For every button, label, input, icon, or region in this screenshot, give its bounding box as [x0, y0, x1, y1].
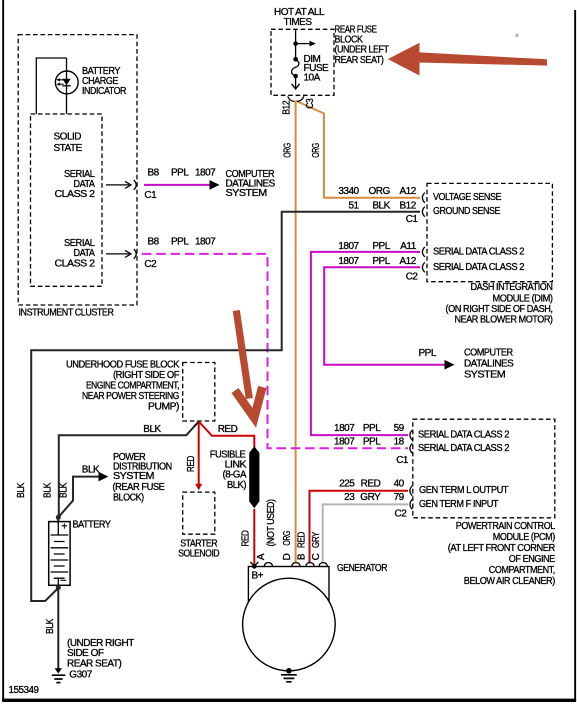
- svg-text:ENGINE COMPARTMENT,: ENGINE COMPARTMENT,: [86, 381, 179, 392]
- svg-text:STATE: STATE: [54, 143, 83, 154]
- svg-text:C2: C2: [406, 272, 419, 283]
- svg-text:RED: RED: [240, 530, 251, 546]
- svg-text:GROUND SENSE: GROUND SENSE: [433, 206, 501, 217]
- svg-text:C2: C2: [144, 259, 157, 270]
- svg-text:MODULE (DIM): MODULE (DIM): [493, 293, 553, 304]
- svg-text:ORG: ORG: [283, 143, 294, 158]
- svg-text:1807: 1807: [334, 437, 355, 448]
- svg-text:COMPARTMENT,: COMPARTMENT,: [489, 565, 555, 576]
- svg-text:PPL: PPL: [372, 241, 390, 252]
- svg-text:1807: 1807: [195, 237, 216, 248]
- svg-text:INDICATOR: INDICATOR: [82, 86, 126, 97]
- svg-text:BLK: BLK: [43, 482, 54, 498]
- svg-text:SERIAL DATA CLASS 2: SERIAL DATA CLASS 2: [433, 262, 525, 273]
- svg-text:1807: 1807: [334, 423, 355, 434]
- svg-text:RED: RED: [186, 456, 197, 472]
- svg-text:COMPUTER: COMPUTER: [464, 347, 513, 358]
- svg-text:BLOCK): BLOCK): [113, 493, 144, 504]
- svg-text:VOLTAGE SENSE: VOLTAGE SENSE: [433, 192, 502, 203]
- svg-text:CLASS 2: CLASS 2: [55, 258, 96, 269]
- svg-text:PPL: PPL: [171, 167, 189, 178]
- svg-text:(RIGHT SIDE OF: (RIGHT SIDE OF: [113, 370, 179, 381]
- svg-text:ORG: ORG: [369, 186, 391, 197]
- svg-text:GEN TERM L OUTPUT: GEN TERM L OUTPUT: [419, 485, 508, 496]
- svg-text:G307: G307: [69, 670, 92, 681]
- svg-text:BLK: BLK: [82, 465, 100, 476]
- svg-text:CLASS 2: CLASS 2: [55, 189, 96, 200]
- svg-text:BLK): BLK): [227, 480, 246, 491]
- svg-text:GRY: GRY: [360, 492, 381, 503]
- svg-text:GRY: GRY: [311, 531, 322, 548]
- svg-text:B: B: [297, 553, 308, 560]
- svg-text:D: D: [282, 553, 293, 560]
- svg-text:79: 79: [394, 492, 405, 503]
- svg-text:(NOT USED): (NOT USED): [266, 499, 277, 546]
- svg-text:ORG: ORG: [282, 531, 293, 546]
- svg-text:10A: 10A: [304, 73, 321, 84]
- svg-text:1807: 1807: [338, 241, 359, 252]
- svg-text:GEN TERM F INPUT: GEN TERM F INPUT: [419, 499, 498, 510]
- svg-text:A12: A12: [400, 186, 417, 197]
- svg-text:BELOW AIR CLEANER): BELOW AIR CLEANER): [464, 576, 555, 587]
- svg-text:PPL: PPL: [363, 437, 381, 448]
- svg-text:NEAR BLOWER MOTOR): NEAR BLOWER MOTOR): [455, 315, 553, 326]
- svg-text:C1: C1: [396, 455, 409, 466]
- svg-text:PPL: PPL: [171, 237, 189, 248]
- svg-text:POWERTRAIN CONTROL: POWERTRAIN CONTROL: [456, 521, 556, 532]
- svg-text:RED: RED: [297, 532, 308, 548]
- svg-text:SYSTEM: SYSTEM: [113, 471, 154, 482]
- svg-text:1807: 1807: [195, 167, 216, 178]
- svg-text:OF ENGINE: OF ENGINE: [509, 554, 556, 565]
- svg-text:SERIAL DATA CLASS 2: SERIAL DATA CLASS 2: [418, 443, 510, 454]
- svg-text:DASH INTEGRATION: DASH INTEGRATION: [471, 282, 553, 293]
- svg-text:C: C: [311, 553, 322, 560]
- svg-text:C1: C1: [144, 190, 157, 201]
- svg-text:C2: C2: [395, 509, 408, 520]
- svg-text:A11: A11: [400, 241, 416, 252]
- svg-text:40: 40: [394, 479, 405, 490]
- svg-text:SERIAL DATA CLASS 2: SERIAL DATA CLASS 2: [433, 246, 525, 257]
- svg-text:C1: C1: [406, 214, 419, 225]
- svg-text:3340: 3340: [338, 186, 359, 197]
- svg-text:BLK: BLK: [16, 482, 27, 498]
- svg-text:SOLENOID: SOLENOID: [178, 549, 219, 560]
- svg-text:MODULE (PCM): MODULE (PCM): [493, 532, 555, 543]
- svg-text:225: 225: [339, 479, 355, 490]
- svg-text:GENERATOR: GENERATOR: [337, 563, 387, 574]
- svg-text:B8: B8: [148, 237, 160, 248]
- svg-text:A12: A12: [400, 256, 417, 267]
- svg-text:RED: RED: [361, 479, 381, 490]
- svg-text:PPL: PPL: [372, 256, 390, 267]
- svg-text:ORG: ORG: [311, 143, 322, 158]
- svg-text:B12: B12: [400, 201, 417, 212]
- svg-text:23: 23: [344, 492, 355, 503]
- svg-text:155349: 155349: [9, 685, 40, 696]
- svg-text:DATALINES: DATALINES: [464, 358, 514, 369]
- svg-text:18: 18: [394, 437, 405, 448]
- svg-text:PPL: PPL: [363, 423, 381, 434]
- svg-text:SIDE OF: SIDE OF: [67, 648, 104, 659]
- svg-text:BATTERY: BATTERY: [73, 520, 112, 531]
- svg-text:SERIAL DATA CLASS 2: SERIAL DATA CLASS 2: [418, 430, 510, 441]
- svg-text:A: A: [256, 553, 267, 560]
- svg-text:SYSTEM: SYSTEM: [226, 188, 267, 199]
- svg-text:UNDERHOOD FUSE BLOCK: UNDERHOOD FUSE BLOCK: [66, 359, 180, 370]
- svg-text:SYSTEM: SYSTEM: [464, 369, 505, 380]
- svg-text:+: +: [62, 522, 68, 533]
- svg-text:BLK: BLK: [372, 201, 390, 212]
- svg-text:1807: 1807: [338, 256, 359, 267]
- svg-text:REAR SEAT): REAR SEAT): [335, 55, 384, 66]
- svg-text:(AT LEFT FRONT CORNER: (AT LEFT FRONT CORNER: [448, 543, 555, 554]
- svg-text:PPL: PPL: [419, 348, 437, 359]
- svg-text:B8: B8: [148, 167, 160, 178]
- svg-text:51: 51: [348, 201, 359, 212]
- svg-text:(REAR FUSE: (REAR FUSE: [113, 482, 166, 493]
- svg-text:B+: B+: [252, 570, 264, 581]
- svg-text:BLK: BLK: [45, 618, 56, 634]
- svg-text:PUMP): PUMP): [148, 401, 179, 412]
- svg-text:59: 59: [394, 423, 405, 434]
- svg-text:RED: RED: [218, 424, 238, 435]
- svg-text:BLK: BLK: [143, 424, 161, 435]
- svg-text:INSTRUMENT CLUSTER: INSTRUMENT CLUSTER: [19, 308, 114, 319]
- svg-text:B12: B12: [282, 100, 293, 115]
- svg-text:REAR SEAT): REAR SEAT): [67, 659, 121, 670]
- svg-text:BLK: BLK: [59, 482, 70, 498]
- svg-text:TIMES: TIMES: [283, 17, 312, 28]
- svg-text:SOLID: SOLID: [54, 132, 82, 143]
- svg-text:C3: C3: [305, 98, 316, 109]
